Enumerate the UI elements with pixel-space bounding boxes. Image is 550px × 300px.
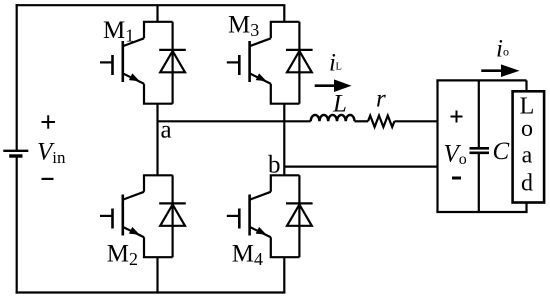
wire right leg top stub xyxy=(283,5,285,22)
node a wire (output of left leg to filter) xyxy=(158,120,311,122)
arrow io (output current) xyxy=(481,64,519,77)
wire left leg bottom stub xyxy=(156,257,158,292)
diode D3 (antiparallel with M3) xyxy=(286,22,313,104)
resistor r xyxy=(368,116,394,127)
svg-text:Vin: Vin xyxy=(37,139,66,168)
capacitor C top lead xyxy=(478,80,480,148)
svg-text:io: io xyxy=(496,35,509,62)
wire M3 cell frame (top bar, corner drop, emitter drop, bottom bar) xyxy=(271,22,300,104)
wire M1 cell frame (top bar, corner drop, emitter drop, bottom bar) xyxy=(144,22,173,104)
transistor M4 (IGBT) xyxy=(227,192,271,238)
node b wire (right leg to output) xyxy=(284,166,437,168)
wire bottom rail xyxy=(16,291,286,293)
svg-text:C: C xyxy=(493,138,510,165)
svg-text:M2: M2 xyxy=(107,241,138,270)
svg-text:L: L xyxy=(332,91,347,118)
svg-text:a: a xyxy=(161,117,172,144)
inductor L xyxy=(311,115,355,121)
wire left leg top stub xyxy=(156,5,158,22)
svg-text:b: b xyxy=(268,152,281,179)
label + (Vo positive) xyxy=(451,111,463,123)
svg-text:M4: M4 xyxy=(232,241,263,270)
wire r to output block xyxy=(394,120,437,122)
capacitor C plates xyxy=(470,148,490,153)
svg-text:M1: M1 xyxy=(103,17,134,46)
wire output bottom xyxy=(436,211,527,213)
wire load bottom connector xyxy=(525,203,527,213)
diode D2 (antiparallel with M2) xyxy=(159,175,186,257)
wire left leg middle (through node a) xyxy=(156,104,158,176)
wire output top xyxy=(436,79,526,81)
load box xyxy=(513,91,545,202)
label Load (vertical text) xyxy=(520,94,535,197)
wire right leg middle (through node b) xyxy=(283,104,285,176)
wire M2 cell frame (top bar, corner drop, emitter drop, bottom bar) xyxy=(144,175,173,257)
svg-text:Vo: Vo xyxy=(444,141,467,169)
wire left rail lower xyxy=(16,156,18,294)
wire top rail xyxy=(16,4,286,6)
label - (battery negative) xyxy=(42,178,54,180)
diode D1 (antiparallel with M1) xyxy=(159,22,186,104)
transistor M2 (IGBT) xyxy=(100,192,144,238)
diode D4 (antiparallel with M4) xyxy=(286,175,313,257)
label + (battery positive) xyxy=(42,115,56,128)
svg-text:M3: M3 xyxy=(228,12,259,41)
wire load top connector xyxy=(525,80,527,91)
svg-text:r: r xyxy=(376,86,386,113)
battery Vin negative plate xyxy=(9,154,22,157)
svg-text:o: o xyxy=(521,116,533,142)
wire output bracket vertical xyxy=(436,80,438,212)
label - (Vo negative) xyxy=(452,177,461,180)
svg-text:a: a xyxy=(522,143,533,169)
capacitor C bottom lead xyxy=(478,153,480,212)
wire M4 cell frame (top bar, corner drop, emitter drop, bottom bar) xyxy=(271,175,300,257)
battery Vin positive plate xyxy=(3,150,28,152)
svg-text:iL: iL xyxy=(329,49,342,76)
wire between L and r xyxy=(355,120,369,122)
wire left rail upper xyxy=(16,4,18,151)
wire right leg bottom stub xyxy=(283,257,285,292)
transistor M3 (IGBT) xyxy=(227,38,271,84)
svg-text:d: d xyxy=(521,171,533,197)
arrow iL (inductor current) xyxy=(315,79,352,92)
transistor M1 (IGBT) xyxy=(100,38,144,84)
